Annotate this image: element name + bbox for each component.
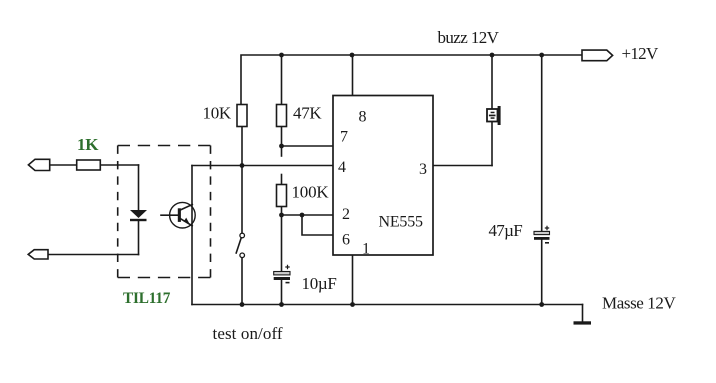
- svg-text:47K: 47K: [293, 104, 322, 123]
- svg-text:100K: 100K: [292, 183, 330, 202]
- svg-text:+12V: +12V: [622, 44, 659, 63]
- svg-text:1K: 1K: [77, 135, 99, 154]
- svg-text:4: 4: [338, 159, 346, 176]
- svg-text:TIL117: TIL117: [123, 290, 171, 307]
- svg-text:buzz 12V: buzz 12V: [438, 28, 500, 47]
- svg-text:2: 2: [342, 206, 350, 223]
- svg-text:10µF: 10µF: [302, 274, 337, 293]
- svg-text:10K: 10K: [203, 104, 232, 123]
- svg-text:8: 8: [359, 109, 367, 126]
- svg-text:Masse 12V: Masse 12V: [602, 294, 676, 313]
- svg-text:47µF: 47µF: [489, 221, 523, 240]
- svg-text:7: 7: [340, 129, 348, 146]
- svg-text:NE555: NE555: [379, 214, 424, 231]
- svg-text:test on/off: test on/off: [213, 324, 283, 343]
- svg-text:1: 1: [362, 241, 370, 258]
- svg-text:6: 6: [342, 232, 350, 249]
- svg-text:3: 3: [419, 161, 427, 178]
